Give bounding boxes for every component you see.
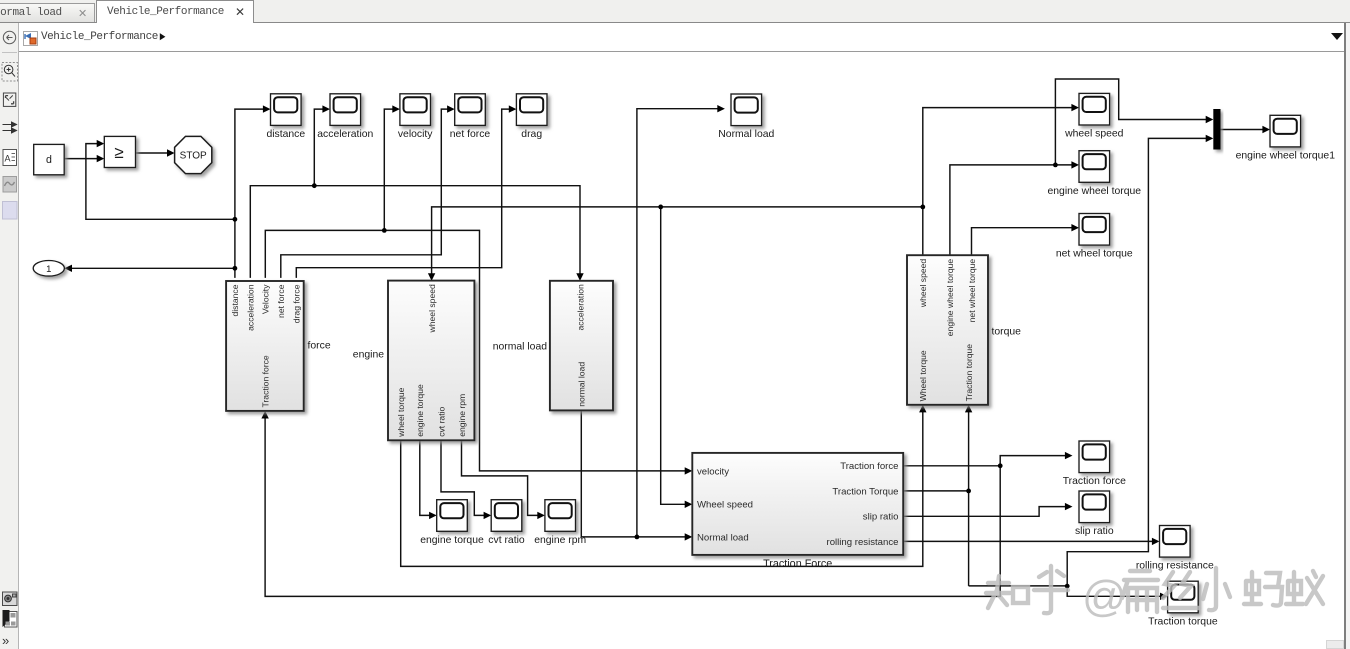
svg-text:net force: net force bbox=[276, 284, 286, 318]
wire engine wheel torque to scope bbox=[950, 165, 1073, 255]
wire normal load scope feed bbox=[637, 109, 718, 537]
right edge border bbox=[1344, 23, 1346, 649]
svg-text:wheel speed: wheel speed bbox=[918, 259, 928, 308]
wire engine rpm to scope bbox=[462, 440, 539, 515]
scope velocity bbox=[398, 94, 433, 140]
svg-text:rolling resistance: rolling resistance bbox=[827, 537, 899, 548]
svg-text:wheel speed: wheel speed bbox=[427, 284, 437, 333]
svg-text:Traction Torque: Traction Torque bbox=[832, 486, 898, 497]
svg-text:Traction torque: Traction torque bbox=[1148, 616, 1218, 627]
wire normal load: block to traction-force bbox=[581, 410, 686, 537]
junction acceleration-scope bbox=[312, 183, 317, 188]
scope engine torque bbox=[420, 500, 484, 546]
scope net wheel torque bbox=[1056, 214, 1133, 260]
scope Normal load bbox=[718, 94, 774, 140]
arrowhead into tf normal load bbox=[685, 533, 693, 540]
arrowhead into net force scope bbox=[447, 105, 455, 112]
svg-text:engine torque: engine torque bbox=[415, 384, 425, 437]
svg-text:drag: drag bbox=[521, 129, 542, 140]
junction traction force-feedback bbox=[998, 463, 1003, 468]
wire traction torque to mux in2 bbox=[1067, 138, 1207, 586]
subsystem block normal load bbox=[550, 281, 613, 411]
svg-text:engine rpm: engine rpm bbox=[534, 535, 586, 546]
wire traction torque output stub bbox=[903, 490, 968, 492]
svg-text:net wheel torque: net wheel torque bbox=[967, 259, 977, 323]
toolbar separator bbox=[2, 52, 17, 54]
breadcrumb model icon bbox=[23, 31, 38, 46]
breadcrumb bar bbox=[19, 23, 1346, 52]
svg-text:engine wheel torque: engine wheel torque bbox=[1048, 186, 1142, 197]
icon fit to view bbox=[3, 93, 15, 106]
scope rolling resistance bbox=[1136, 526, 1214, 572]
scope engine rpm bbox=[534, 500, 586, 546]
svg-text:slip ratio: slip ratio bbox=[1075, 526, 1114, 537]
watermark zhihu bbox=[986, 566, 1323, 621]
wire engine torque to scope bbox=[420, 440, 430, 515]
wire distance net: scope feed + down to force bbox=[235, 109, 264, 278]
icon palette (disabled) bbox=[3, 202, 18, 220]
wire rolling resistance to scope bbox=[903, 540, 1153, 542]
svg-text:normal load: normal load bbox=[577, 362, 587, 407]
wire distance branch to relop vertical bbox=[86, 144, 235, 220]
wire traction force output bbox=[903, 465, 1000, 467]
arrowhead into normal-load block bbox=[576, 273, 583, 281]
breadcrumb caret bbox=[159, 33, 167, 42]
wire slip ratio to scope bbox=[903, 507, 1066, 517]
icon camera bbox=[3, 592, 18, 606]
junction wheel speed-engine bbox=[920, 205, 925, 210]
breadcrumb dropdown arrow bbox=[1331, 33, 1343, 40]
junction engine wheel torque-mux bbox=[1053, 163, 1058, 168]
svg-text:engine torque: engine torque bbox=[420, 535, 484, 546]
svg-text:Velocity: Velocity bbox=[261, 284, 271, 314]
arrowhead into traction torque scope bbox=[1160, 593, 1168, 600]
svg-text:acceleration: acceleration bbox=[317, 129, 373, 140]
arrowhead into net wheel torque scope bbox=[1071, 224, 1079, 231]
svg-text:Traction force: Traction force bbox=[840, 461, 898, 472]
svg-text:Traction force: Traction force bbox=[261, 355, 271, 407]
wire acceleration scope feed bbox=[314, 109, 324, 186]
svg-text:cvt ratio: cvt ratio bbox=[436, 406, 446, 436]
arrowhead into tf wheel speed bbox=[685, 501, 693, 508]
svg-text:d: d bbox=[46, 154, 52, 166]
wire wheel speed main: torque blk top to scope bbox=[923, 108, 1073, 256]
svg-text:Normal load: Normal load bbox=[697, 532, 749, 543]
subsystem block force bbox=[226, 281, 304, 411]
svg-text:cvt ratio: cvt ratio bbox=[488, 535, 525, 546]
scope engine wheel torque bbox=[1048, 151, 1142, 197]
wire acceleration: up, scope branch, to normal-load block bbox=[250, 186, 580, 278]
arrowhead into drag scope bbox=[509, 105, 517, 112]
svg-text:Wheel speed: Wheel speed bbox=[697, 500, 753, 511]
arrowhead into mux in1 bbox=[1206, 116, 1214, 123]
icon signal arrows bbox=[3, 122, 17, 133]
svg-text:≥: ≥ bbox=[114, 143, 123, 162]
arrowhead into engine rpm scope bbox=[537, 512, 545, 519]
svg-text:net force: net force bbox=[450, 129, 491, 140]
svg-text:Traction torque: Traction torque bbox=[964, 344, 974, 402]
svg-text:torque: torque bbox=[992, 327, 1022, 338]
junction distance-outport bbox=[233, 266, 238, 271]
arrowhead into tf velocity bbox=[685, 467, 693, 474]
wire traction torque to scope bbox=[1067, 586, 1161, 596]
icon zoom tool bbox=[2, 63, 18, 82]
inactive tab normal load bbox=[0, 3, 95, 22]
arrowhead into velocity scope bbox=[392, 105, 400, 112]
wire traction force scope feed bbox=[1000, 456, 1066, 466]
svg-text:engine wheel torque1: engine wheel torque1 bbox=[1236, 150, 1336, 161]
wire traction force feedback loop bbox=[265, 418, 1000, 597]
icon viewer (disabled) bbox=[3, 177, 17, 193]
arrowhead into torque blk wheel torque bbox=[919, 405, 926, 413]
svg-text:1: 1 bbox=[46, 264, 51, 275]
bottom right scrollbar corner bbox=[1326, 640, 1344, 649]
arrowhead into traction force scope bbox=[1065, 452, 1073, 459]
svg-text:A: A bbox=[5, 154, 11, 164]
arrowhead into rolling resistance scope bbox=[1152, 538, 1160, 545]
wire traction torque down leg bbox=[968, 491, 970, 586]
arrowhead into engine block bbox=[428, 273, 435, 281]
arrowhead into torque blk traction torque bbox=[965, 405, 972, 413]
scope drag bbox=[516, 94, 547, 140]
wire mux output to scope bbox=[1221, 129, 1264, 131]
subsystem block torque bbox=[907, 255, 988, 405]
svg-text:Wheel torque: Wheel torque bbox=[918, 350, 928, 401]
svg-text:engine rpm: engine rpm bbox=[457, 394, 467, 437]
svg-text:drag force: drag force bbox=[292, 284, 302, 323]
svg-text:engine: engine bbox=[353, 350, 384, 361]
wire traction torque up to torque blk bbox=[968, 411, 970, 491]
svg-text:wheel speed: wheel speed bbox=[1064, 129, 1124, 140]
arrowhead into relop in2 bbox=[97, 155, 105, 162]
junction traction torque-mux bbox=[1065, 584, 1070, 589]
toolbar icons bbox=[0, 23, 19, 649]
wire d to relop in2 bbox=[64, 158, 97, 160]
svg-text:velocity: velocity bbox=[398, 129, 433, 140]
svg-text:slip ratio: slip ratio bbox=[863, 512, 899, 523]
junction distance-relop bbox=[233, 217, 238, 222]
svg-text:engine wheel torque: engine wheel torque bbox=[945, 259, 955, 337]
svg-text:net wheel torque: net wheel torque bbox=[1056, 249, 1133, 260]
outport block 1 bbox=[33, 261, 64, 277]
scope slip ratio bbox=[1075, 491, 1114, 537]
svg-text:normal load: normal load bbox=[493, 342, 548, 353]
wire engine wheel torque branch to mux in1 bbox=[1055, 79, 1206, 165]
wire wheel speed branch to engine bbox=[432, 207, 923, 274]
icon subsystem badge bbox=[3, 610, 18, 627]
arrowhead into relop in1 bbox=[97, 140, 105, 147]
arrowhead into cvt ratio scope bbox=[484, 512, 492, 519]
icon annotation bbox=[3, 150, 17, 166]
stop simulation block bbox=[175, 136, 212, 173]
svg-text:@: @ bbox=[1082, 572, 1127, 621]
scope cvt ratio bbox=[488, 500, 525, 546]
scope net force bbox=[450, 94, 491, 140]
tab bar bbox=[0, 0, 1350, 23]
svg-text:distance: distance bbox=[230, 284, 240, 316]
wire wheel speed branch to traction-force bbox=[661, 207, 686, 504]
icon hide palette bbox=[3, 31, 15, 43]
arrowhead into wheel speed scope bbox=[1071, 104, 1079, 111]
arrowhead into stop bbox=[167, 149, 175, 156]
wire distance branch to outport 1 bbox=[72, 267, 235, 269]
constant block d bbox=[34, 144, 64, 174]
svg-text:»: » bbox=[2, 633, 9, 648]
arrowhead into engine torque scope bbox=[429, 512, 437, 519]
left toolbar strip bbox=[0, 23, 19, 649]
scope engine wheel torque1 bbox=[1236, 115, 1336, 161]
wire net force to scope bbox=[281, 109, 449, 278]
arrowhead into engine wheel torque scope bbox=[1071, 161, 1079, 168]
wire velocity scope feed bbox=[384, 109, 393, 230]
scope Traction torque bbox=[1148, 581, 1218, 627]
subsystem block Traction Force bbox=[692, 453, 903, 555]
svg-text:velocity: velocity bbox=[697, 466, 729, 477]
breadcrumb text bbox=[41, 31, 158, 43]
svg-text:distance: distance bbox=[266, 129, 305, 140]
svg-text:STOP: STOP bbox=[180, 151, 207, 162]
wire wheel torque: engine to torque blk bbox=[401, 411, 923, 566]
arrowhead into distance scope bbox=[263, 105, 271, 112]
wire traction torque run right bbox=[969, 585, 1068, 587]
subsystem block engine bbox=[388, 281, 474, 441]
junction traction torque-down bbox=[966, 489, 971, 494]
svg-text:Traction Force: Traction Force bbox=[763, 558, 832, 570]
wire drag force to scope bbox=[296, 109, 510, 278]
scope wheel speed bbox=[1064, 93, 1124, 139]
mux block bbox=[1213, 109, 1220, 150]
svg-text:acceleration: acceleration bbox=[246, 284, 256, 331]
wire relop to stop bbox=[136, 152, 169, 154]
active tab Vehicle_Performance bbox=[96, 0, 254, 23]
svg-text:force: force bbox=[308, 341, 331, 352]
scope Traction force bbox=[1063, 441, 1126, 487]
arrowhead into acceleration scope bbox=[322, 105, 330, 112]
arrowhead into engine wheel torque1 scope bbox=[1262, 126, 1270, 133]
arrowhead into outport 1 bbox=[64, 265, 72, 272]
arrowhead into force block bottom bbox=[261, 411, 268, 419]
arrowhead into normal load scope bbox=[717, 105, 725, 112]
junction velocity-scope bbox=[382, 228, 387, 233]
wire net wheel torque to scope bbox=[972, 228, 1073, 256]
junction normal load-scope bbox=[635, 535, 640, 540]
wire velocity: up, right, down to traction-force velocity bbox=[265, 230, 686, 471]
scope distance bbox=[266, 94, 305, 140]
relational operator block >= bbox=[104, 136, 135, 167]
svg-text:Traction force: Traction force bbox=[1063, 476, 1126, 487]
svg-text:acceleration: acceleration bbox=[575, 284, 585, 331]
svg-text:wheel torque: wheel torque bbox=[396, 387, 406, 437]
junction wheel speed-tf bbox=[658, 205, 663, 210]
arrowhead into slip ratio scope bbox=[1065, 503, 1073, 510]
svg-text:Normal load: Normal load bbox=[718, 129, 774, 140]
scope acceleration bbox=[317, 94, 373, 140]
wire cvt ratio to scope bbox=[441, 440, 485, 515]
arrowhead into mux in2 bbox=[1206, 135, 1214, 142]
